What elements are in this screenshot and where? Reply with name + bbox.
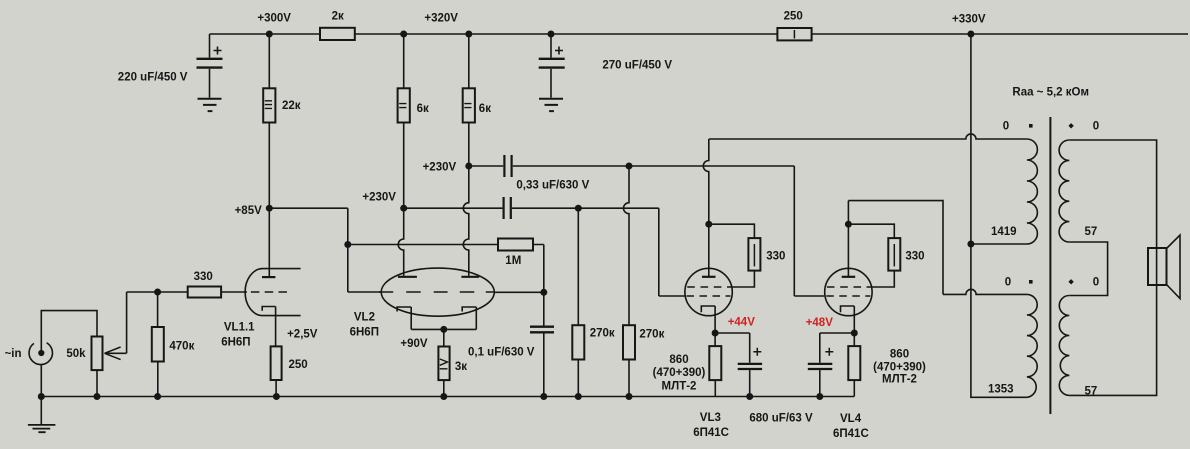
svg-text:1419: 1419 [991,226,1017,238]
wire VL4 plate to transformer lower primary [848,201,1027,295]
wire VL2 cathode bus [411,328,476,330]
svg-text:VL1.1: VL1.1 [224,322,255,334]
transformer secondary winding 57 upper [1059,140,1069,242]
resistor 270к (first) [572,208,584,396]
tube VL3 envelope [685,268,732,315]
svg-text:250: 250 [289,359,308,371]
node +320V rail junction 2 [465,31,472,38]
node transformer center tap [967,241,974,248]
svg-text:50k: 50k [66,348,86,360]
wire 1M to VL2 right grid [494,245,544,293]
wire input to pot top [41,311,97,353]
svg-text:0: 0 [1093,277,1099,289]
svg-text:680 uF/63 V: 680 uF/63 V [749,413,813,425]
resistor 250 (VL1.1 cathode) [271,346,282,396]
tube VL4 screen dashes [827,286,861,288]
svg-text:МЛТ-2: МЛТ-2 [882,373,917,385]
polarity mark primary upper [1029,124,1033,128]
node 270uF rail junction [548,31,555,38]
polarity mark primary lower [1029,280,1033,284]
wire grid resistor 270к-2 feed with hop [624,166,630,325]
resistor 6к (first) [398,34,410,208]
wire VL4 330 branch [848,224,894,238]
wire VL3 330 branch [709,224,755,238]
svg-text:330: 330 [766,250,785,262]
tube VL2 cathode left [397,307,411,329]
svg-text:+90V: +90V [400,338,428,350]
wire 1M row [348,244,498,246]
capacitor 270 uF/450 V [539,34,565,98]
wire VL3 plate riser with hop [703,139,709,224]
svg-text:+230V: +230V [362,192,396,204]
svg-text:+230V: +230V [423,162,457,174]
wire primary upper top lead with hop [709,134,1027,139]
tube VL2 cathode right [462,307,476,329]
potentiometer 50k [92,337,103,397]
tube VL4 envelope [825,268,872,315]
node +85V [266,205,273,212]
svg-text:(470+390): (470+390) [873,362,926,374]
wire VL4 screen lead [867,271,895,287]
tube VL4 plate [842,201,856,277]
svg-text:~in: ~in [5,348,22,360]
wire VL2 plate 2 feed with hops [463,166,468,276]
svg-text:6П41С: 6П41С [833,428,869,440]
svg-text:330: 330 [905,250,924,262]
node grid junction (pot/470к/330) [154,289,161,296]
ground (input) [28,397,56,433]
tube VL3 control grid dashes [687,295,731,297]
svg-text:3к: 3к [455,361,467,373]
svg-text:6Н6П: 6Н6П [350,326,379,338]
node input center pin [38,350,44,356]
svg-text:330: 330 [194,271,213,283]
node +320V rail junction 1 [400,31,407,38]
resistor 330 (VL1.1 grid) [158,287,247,298]
tube VL1.1 envelope [245,269,300,316]
svg-text:1M: 1M [505,255,521,267]
tube VL2 grid dashes [379,291,493,293]
svg-text:0,1 uF/630 V: 0,1 uF/630 V [468,347,535,359]
svg-text:+300V: +300V [257,12,291,24]
capacitor 680 uF/63 V (VL3) [715,333,762,397]
resistor 1M [498,239,533,251]
wire row A left [469,165,503,167]
svg-text:57: 57 [1085,226,1098,238]
node ground rail dots [38,393,824,400]
node VL3 cathode junction [712,330,719,337]
wire secondary bottom lead [1069,285,1156,395]
speaker [1148,235,1180,299]
wire +85V to VL2 grid [269,208,381,292]
capacitor 0,33 uF/630 V (lower) [504,197,511,219]
node +230V lower (row B) [400,205,407,212]
node row B grid resistor junction [575,205,582,212]
node +330V rail junction [967,31,974,38]
wire VL3 screen lead [727,271,754,287]
tube VL4 control grid dashes [826,295,870,297]
wire row B left [404,207,503,209]
svg-text:860: 860 [890,348,909,360]
resistor 250 (top rail) [777,28,811,40]
svg-text:6Н6П: 6Н6П [221,337,250,349]
node VL3 plate junction [705,221,712,228]
ground (220uF) [198,99,222,111]
resistor 330 (VL3) [748,238,760,271]
svg-text:6к: 6к [417,103,429,115]
svg-text:0,33 uF/630 V: 0,33 uF/630 V [516,180,589,192]
tube VL1.1 grid dashes [251,291,287,293]
svg-text:+85V: +85V [235,205,263,217]
svg-text:22к: 22к [282,100,301,112]
svg-text:6П41С: 6П41С [693,427,729,439]
svg-text:0: 0 [1003,121,1009,133]
wire row B right [512,208,686,296]
svg-text:57: 57 [1085,386,1098,398]
svg-text:VL3: VL3 [700,412,721,424]
wire +330V center tap riser [971,34,1027,397]
transformer primary winding 1419 [971,139,1038,244]
wire secondary series link [1069,242,1107,296]
wire VL2 plate 1 feed with hop [398,208,404,276]
svg-text:+320V: +320V [424,12,458,24]
svg-text:0: 0 [1093,121,1099,133]
tube VL3 plate [702,224,716,277]
svg-text:6к: 6к [479,103,491,115]
svg-text:МЛТ-2: МЛТ-2 [662,380,697,392]
tube VL1.1 plate [262,208,275,277]
svg-text:270 uF/450 V: 270 uF/450 V [602,60,672,72]
svg-text:+48V: +48V [806,317,834,329]
svg-text:+2,5V: +2,5V [287,329,318,341]
polarity mark secondary upper [1068,123,1073,128]
node +230V upper (row A) [465,163,472,170]
connector ~in jack [29,343,52,365]
capacitor 220 uF/450 V [197,34,223,98]
svg-text:250: 250 [784,11,803,23]
capacitor 0,1 uF/630 V [530,292,554,396]
node row A to grid resistor [626,163,633,170]
svg-text:270к: 270к [639,328,664,340]
tube VL4 cathode [841,306,855,333]
resistor 22к [263,34,275,208]
svg-text:+44V: +44V [728,316,756,328]
tube VL2 plate 1 [398,276,417,278]
node VL2 grid left junction [344,241,351,248]
polarity mark secondary lower [1068,279,1073,284]
resistor 470к [152,292,164,397]
node VL4 plate junction [845,221,852,228]
capacitor 0,33 uF/630 V (upper) [504,155,511,177]
svg-text:(470+390): (470+390) [653,367,706,379]
wire secondary top lead [1069,140,1156,248]
svg-text:VL4: VL4 [840,413,862,425]
svg-text:860: 860 [669,354,688,366]
ground (270uF) [539,99,563,111]
svg-text:2к: 2к [332,10,344,22]
resistor 860 МЛТ-2 (VL4) [848,333,860,397]
svg-text:470к: 470к [169,341,194,353]
wire ground rail [41,396,854,398]
wire input shield down [40,365,42,397]
resistor 270к (second) [623,325,635,396]
svg-text:VL2: VL2 [354,312,375,324]
tube VL2 plate 2 [461,276,479,278]
svg-text:Raa ~ 5,2 кОм: Raa ~ 5,2 кОм [1012,86,1089,98]
wire row A right [513,166,824,296]
node VL2 cathode junction [440,326,447,333]
node VL4 cathode junction [851,330,858,337]
svg-text:0: 0 [1005,277,1011,289]
resistor 6к (second) [463,34,475,166]
tube VL1.1 cathode [262,307,275,347]
wire top supply rail [210,33,1189,35]
resistor 330 (VL4) [888,238,900,271]
resistor 2к [320,28,355,40]
node +300V rail junction [266,31,273,38]
tube VL3 cathode [701,306,715,333]
tube VL2 envelope [381,268,494,316]
svg-text:220 uF/450 V: 220 uF/450 V [118,72,188,84]
svg-text:+330V: +330V [952,13,986,25]
wire pot wiper arrow [105,292,158,360]
node VL2 right grid junction [540,289,547,296]
transformer secondary winding 57 lower [1059,296,1069,396]
transformer core [1049,117,1051,414]
transformer primary winding 1353 [1027,294,1037,397]
tube VL3 screen dashes [687,286,721,288]
svg-text:270к: 270к [590,328,615,340]
resistor 3к [438,329,449,396]
svg-text:1353: 1353 [988,384,1014,396]
capacitor 680 uF/63 V (VL4) [808,333,855,397]
resistor 860 МЛТ-2 (VL3) [709,333,721,397]
